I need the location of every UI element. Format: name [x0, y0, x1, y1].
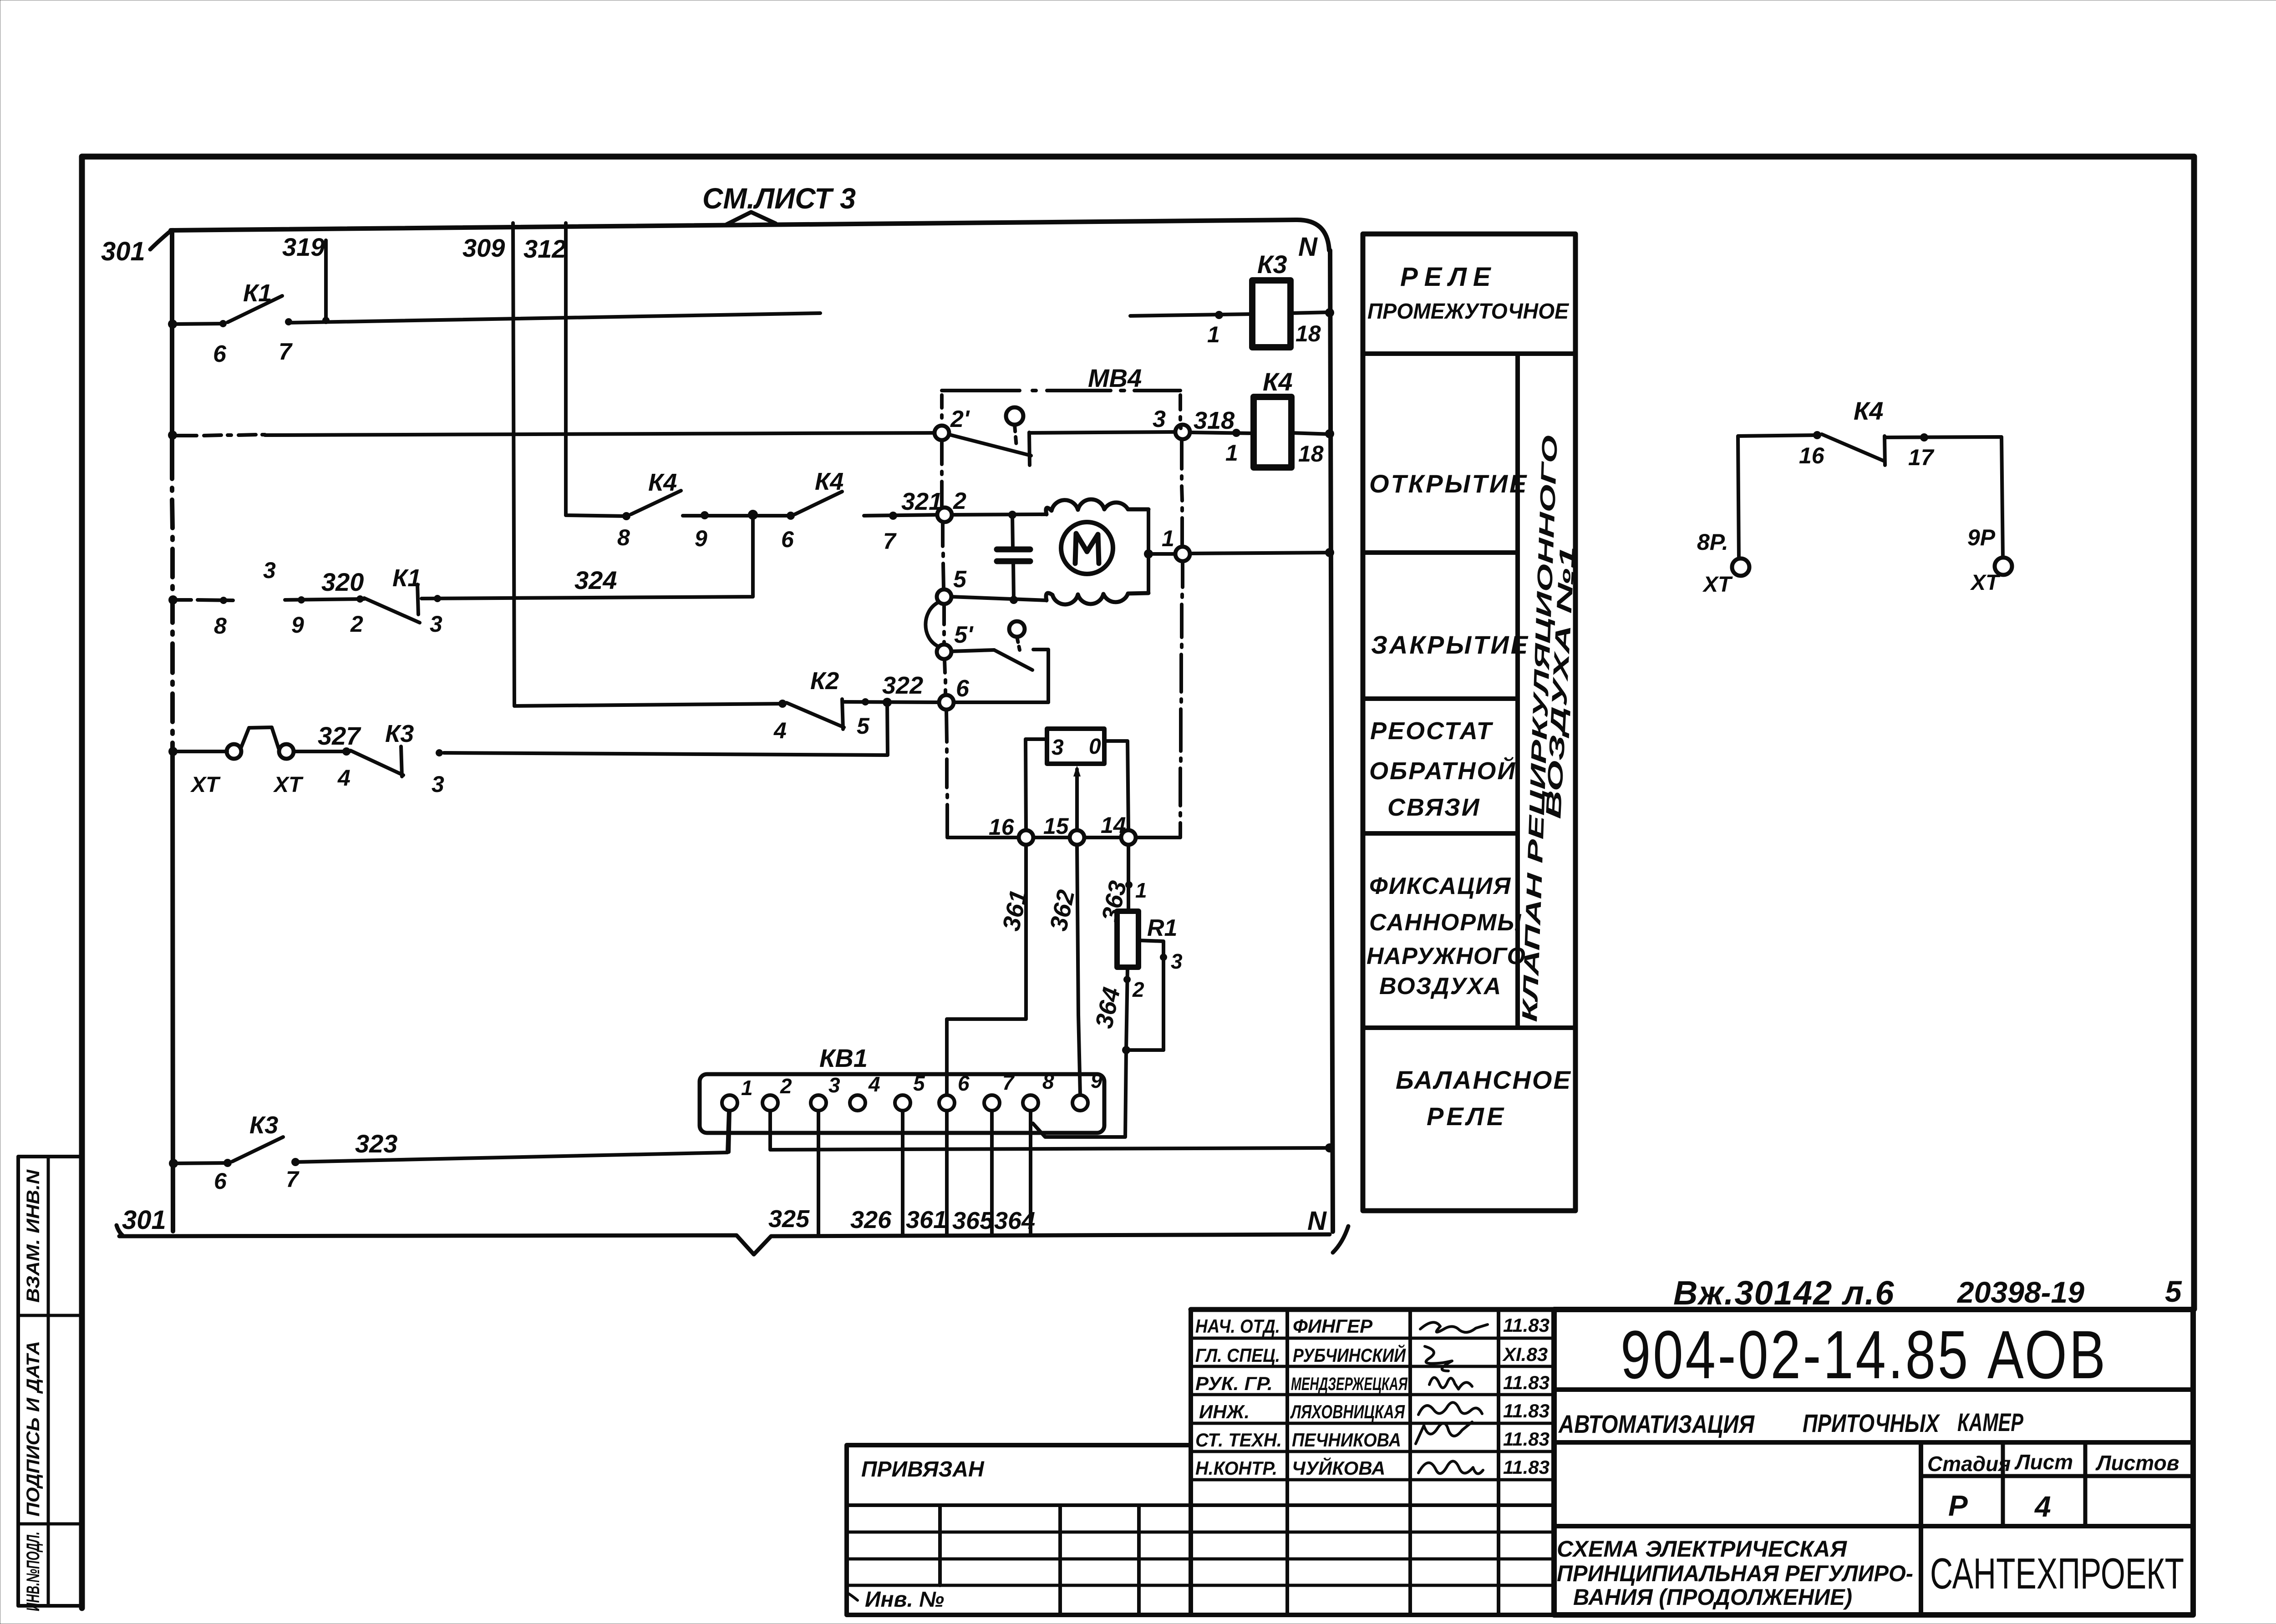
svg-text:5: 5 [913, 1071, 925, 1095]
svg-text:1: 1 [1162, 526, 1174, 551]
KB1 pin 5 [895, 1095, 910, 1111]
svg-text:СМ.ЛИСТ 3: СМ.ЛИСТ 3 [702, 182, 856, 215]
svg-text:ВОЗДУХА: ВОЗДУХА [1379, 973, 1502, 1000]
svg-text:ЗАКРЫТИЕ: ЗАКРЫТИЕ [1371, 630, 1529, 659]
svg-text:325: 325 [768, 1205, 810, 1233]
left grid col b [1058, 1505, 1062, 1615]
svg-text:320: 320 [321, 568, 364, 596]
KB1 pin 6 [939, 1095, 955, 1111]
stamp divider vertical [47, 1157, 50, 1606]
wire node5 row [951, 597, 1047, 600]
switch 5' fixed hook [1033, 650, 1048, 702]
signature 4 [1418, 1402, 1482, 1415]
MB4 box left edge dash-dot [942, 395, 947, 837]
stage col divider [1919, 1442, 1923, 1615]
continuation chevron to sheet 3 [726, 212, 776, 224]
svg-text:14: 14 [1101, 812, 1126, 838]
svg-text:Инв. №: Инв. № [865, 1588, 944, 1612]
rheostat left lead to 16 [1026, 739, 1047, 830]
svg-text:3: 3 [1171, 949, 1183, 973]
sig row line 4 [1191, 1422, 1554, 1425]
svg-text:Р: Р [1948, 1489, 1968, 1522]
terminal 6 of K1 [219, 320, 227, 327]
terminal 7 of K1 [285, 318, 292, 325]
wire switch to node 3 [1030, 432, 1175, 433]
terminal 1 of R1 [1125, 881, 1133, 888]
svg-text:301: 301 [122, 1205, 166, 1235]
svg-text:РЕЛЕ: РЕЛЕ [1427, 1102, 1506, 1131]
wire 324 [422, 516, 753, 599]
connector KB1 box [700, 1074, 1104, 1133]
wire to coil K3 [1130, 314, 1252, 316]
svg-text:XI.83: XI.83 [1502, 1344, 1548, 1365]
sig col date divider [1497, 1309, 1500, 1615]
svg-text:324: 324 [574, 566, 617, 594]
svg-text:ХТ: ХТ [190, 773, 221, 797]
svg-text:6: 6 [213, 341, 227, 367]
terminal 8 row4 [220, 597, 227, 604]
svg-text:20398-19: 20398-19 [1956, 1275, 2084, 1309]
svg-text:ОБРАТНОЙ: ОБРАТНОЙ [1369, 756, 1516, 785]
wire 364 to pin8 [1033, 1050, 1126, 1137]
sig col role divider [1285, 1309, 1289, 1615]
switch 5' actuator stem [1017, 637, 1020, 650]
MB4 box top dash-dot [942, 389, 1180, 392]
wire row4 dash [174, 600, 233, 600]
svg-text:ХТ: ХТ [273, 773, 304, 797]
contact K1 blade (row1) [228, 296, 282, 322]
svg-text:6: 6 [958, 1071, 970, 1095]
jumper hop XT-XT [241, 727, 279, 748]
node 319 on row1 [322, 317, 330, 324]
KB1 pin 4 [850, 1095, 865, 1111]
wire 322 drop [444, 702, 888, 755]
contact K4 right section left lead [1738, 435, 1817, 559]
node junction left rail row1 [168, 320, 177, 329]
titleblock right box frame [1554, 1309, 2193, 1615]
stage header row line [1921, 1474, 2193, 1478]
sig row line 1 [1191, 1337, 1554, 1340]
svg-text:К4: К4 [815, 468, 843, 495]
node junction left rail row XT [168, 747, 178, 756]
svg-text:R1: R1 [1147, 915, 1177, 941]
svg-text:11.83: 11.83 [1503, 1400, 1550, 1421]
svg-text:Н.КОНТР.: Н.КОНТР. [1195, 1457, 1277, 1479]
svg-text:3: 3 [828, 1073, 840, 1097]
terminal 1 of coil K3 [1215, 311, 1223, 319]
svg-text:4: 4 [773, 718, 787, 743]
svg-text:ИНЖ.: ИНЖ. [1199, 1401, 1250, 1422]
list col divider [2001, 1442, 2005, 1526]
contact K1 blade (row4 NC) [364, 598, 420, 623]
switch 5' actuator circle [1009, 621, 1025, 637]
terminal 9 [701, 511, 709, 519]
svg-text:Лист: Лист [2014, 1450, 2073, 1474]
capacitor plate 1 [997, 547, 1030, 553]
svg-text:САННОРМЫ: САННОРМЫ [1369, 909, 1522, 936]
titleblock line above schema [1554, 1524, 2193, 1528]
wire pin2 to N rail [770, 1111, 1330, 1150]
node 5' [937, 645, 951, 659]
motor bottom winding [1046, 593, 1148, 604]
svg-text:1: 1 [1135, 878, 1147, 902]
svg-text:9: 9 [291, 612, 304, 638]
svg-text:7: 7 [279, 339, 293, 365]
switch 5' blade [994, 650, 1032, 670]
contact K3 blade (NC row) [351, 751, 403, 775]
titleblock top line [1191, 1307, 2193, 1312]
svg-text:МВ4: МВ4 [1088, 364, 1142, 392]
stamp divider h2 [18, 1522, 82, 1526]
KB1 pin 7 [984, 1095, 1000, 1111]
svg-text:8: 8 [617, 525, 630, 550]
svg-text:5: 5 [2165, 1274, 2182, 1308]
svg-text:АВТОМАТИЗАЦИЯ: АВТОМАТИЗАЦИЯ [1558, 1410, 1755, 1438]
svg-text:Стадия: Стадия [1927, 1452, 2011, 1476]
svg-text:Вж.30142 л.6: Вж.30142 л.6 [1673, 1274, 1895, 1312]
svg-text:ВАНИЯ (ПРОДОЛЖЕНИЕ): ВАНИЯ (ПРОДОЛЖЕНИЕ) [1573, 1584, 1852, 1610]
table divider close/rheo [1363, 696, 1518, 701]
node on N rail row2 [1325, 429, 1334, 438]
svg-text:4: 4 [2034, 1490, 2051, 1523]
wire 327 [294, 750, 350, 753]
wire 309 corner to K2 [514, 704, 784, 706]
wire coil K4 to N [1291, 433, 1331, 434]
svg-text:8: 8 [1042, 1070, 1054, 1093]
sig row line 9 [847, 1558, 1554, 1561]
motor right side link [1147, 509, 1150, 593]
node 324 junction [748, 510, 758, 520]
MB4 limit switch blade (2'-3) [950, 435, 1031, 456]
svg-text:К1: К1 [243, 279, 272, 307]
KB1 pin 1 [722, 1095, 737, 1111]
svg-text:16: 16 [1799, 443, 1825, 468]
svg-text:ПРИТОЧНЫХ: ПРИТОЧНЫХ [1803, 1409, 1941, 1437]
svg-text:РЕОСТАТ: РЕОСТАТ [1370, 717, 1493, 745]
svg-text:318: 318 [1194, 407, 1235, 434]
wire rail to XT [173, 750, 227, 753]
svg-text:323: 323 [355, 1129, 397, 1158]
top rail left hook [150, 231, 170, 249]
signature 2 [1425, 1346, 1452, 1371]
node 1 [1175, 547, 1190, 561]
motor M circle [1061, 522, 1113, 574]
svg-text:1: 1 [741, 1076, 753, 1100]
signature table outline [1191, 1309, 1554, 1615]
svg-text:3: 3 [430, 611, 442, 637]
svg-text:К3: К3 [1257, 250, 1287, 279]
svg-text:ГЛ. СПЕЦ.: ГЛ. СПЕЦ. [1195, 1345, 1280, 1366]
svg-text:К3: К3 [385, 720, 414, 747]
top rail 301-N with pointer notch [171, 220, 1329, 250]
MB4 switch fixed bar [1029, 432, 1030, 465]
svg-text:N: N [1307, 1206, 1327, 1236]
svg-text:РУК. ГР.: РУК. ГР. [1195, 1373, 1273, 1394]
relay coil K3 [1252, 280, 1290, 347]
svg-text:11.83: 11.83 [1503, 1372, 1550, 1393]
resistor R1 [1117, 911, 1138, 967]
svg-text:3: 3 [1153, 406, 1166, 432]
terminal 17 [1920, 433, 1928, 442]
svg-text:2': 2' [950, 406, 970, 432]
wire K2 to node6 [844, 702, 939, 702]
connector XT circle a [227, 744, 241, 759]
MB4 switch actuator stem [1015, 425, 1016, 447]
signature 6 [1418, 1461, 1483, 1473]
wire 318 [1190, 432, 1254, 433]
node 3 [1175, 425, 1190, 439]
capacitor stem bottom [1013, 562, 1014, 600]
rheostat wiper arrowhead [1073, 766, 1081, 776]
table divider open/close [1363, 550, 1518, 555]
wire 361 drop [945, 1111, 949, 1234]
left rail 301 vertical upper [170, 230, 174, 456]
svg-text:К1: К1 [392, 564, 421, 592]
terminal 6 of K3 (323) [224, 1159, 232, 1167]
signature 5 [1416, 1422, 1472, 1444]
contact K2 blade (NC) [787, 703, 844, 727]
motor top winding [1046, 499, 1148, 514]
contact K2 fixed bar [842, 699, 843, 729]
svg-text:К2: К2 [810, 667, 839, 695]
wire 361 from node16 to pin6 [947, 845, 1026, 1095]
svg-text:2: 2 [953, 488, 966, 514]
node 322 junction [883, 698, 892, 707]
wire node1 to N [1190, 553, 1331, 553]
svg-text:К4: К4 [1263, 367, 1293, 396]
wire 323 [296, 1111, 729, 1162]
wire 309 vertical [513, 223, 514, 706]
row3 wire from 312 [566, 514, 627, 516]
svg-text:ИНВ.№ПОДЛ.: ИНВ.№ПОДЛ. [23, 1532, 43, 1611]
sig col name divider [1408, 1309, 1412, 1615]
terminal 4 of K3 [342, 747, 351, 756]
svg-text:9Р: 9Р [1967, 525, 1996, 550]
svg-text:К3: К3 [249, 1111, 278, 1139]
svg-text:361: 361 [906, 1206, 947, 1233]
svg-text:2: 2 [350, 611, 363, 637]
left grid bottom [847, 1613, 1554, 1617]
svg-text:5': 5' [954, 622, 974, 648]
terminal 3 of R1 [1160, 954, 1167, 961]
node on N rail row1 [1325, 308, 1334, 317]
table divider above balance [1363, 1025, 1575, 1030]
sig row line 7 [847, 1503, 1554, 1507]
terminal 16 [1813, 431, 1821, 439]
terminal circle 8R [1732, 558, 1749, 576]
node cap top [1008, 511, 1016, 519]
jumper 5 to 5' [925, 602, 939, 646]
svg-text:СХЕМА ЭЛЕКТРИЧЕСКАЯ: СХЕМА ЭЛЕКТРИЧЕСКАЯ [1557, 1536, 1848, 1562]
table divider rheo/fix [1363, 831, 1518, 836]
table inner vertical [1515, 354, 1520, 1028]
svg-text:7: 7 [883, 528, 897, 554]
titleblock line under 904 [1554, 1387, 2193, 1392]
wire pin1 to 323 [729, 1111, 730, 1152]
wire 9 to 6 [683, 514, 792, 518]
node junction left rail row 323 [169, 1159, 178, 1168]
node tap junction [1122, 1046, 1130, 1054]
signature 1 [1420, 1322, 1488, 1332]
left grid col c [1137, 1505, 1141, 1615]
svg-text:2: 2 [1132, 978, 1144, 1001]
contact K4 blade a (row3) [631, 491, 681, 514]
svg-text:СВЯЗИ: СВЯЗИ [1387, 794, 1481, 821]
node cap bottom [1010, 596, 1018, 604]
svg-text:2: 2 [780, 1074, 792, 1098]
terminal 8 [622, 512, 630, 520]
svg-text:365: 365 [952, 1207, 994, 1234]
svg-text:7: 7 [1002, 1071, 1015, 1094]
node motor out [1144, 549, 1153, 558]
wire row2 rail dash-dot start [173, 435, 265, 436]
svg-text:ФИНГЕР: ФИНГЕР [1293, 1315, 1373, 1337]
svg-text:18: 18 [1298, 441, 1324, 467]
svg-text:К4: К4 [648, 469, 677, 496]
R1 tap bottom link [1126, 1048, 1163, 1052]
svg-text:ЧУЙКОВА: ЧУЙКОВА [1292, 1457, 1385, 1479]
wire row2 to node 2' [265, 433, 935, 435]
svg-text:5: 5 [857, 713, 870, 739]
sig row line 3 [1191, 1393, 1554, 1396]
terminal 5 of K2 [862, 698, 869, 705]
left rail 301 vertical lower [173, 751, 173, 1231]
rheostat wiper arrow from node15 [1075, 769, 1079, 830]
svg-text:ОТКРЫТИЕ: ОТКРЫТИЕ [1369, 469, 1528, 498]
node 2' [935, 426, 949, 440]
svg-text:18: 18 [1295, 321, 1321, 346]
svg-text:319: 319 [282, 233, 325, 261]
svg-text:4: 4 [337, 765, 351, 791]
svg-text:ЛЯХОВНИЦКАЯ: ЛЯХОВНИЦКАЯ [1290, 1401, 1405, 1422]
svg-text:6: 6 [781, 527, 794, 552]
svg-text:9: 9 [695, 526, 707, 551]
svg-text:ФИКСАЦИЯ: ФИКСАЦИЯ [1369, 873, 1511, 899]
svg-text:6: 6 [956, 675, 970, 702]
node junction left rail row2 [168, 431, 177, 440]
node junction left rail row4 [168, 595, 178, 604]
wire 365 drop [990, 1111, 994, 1234]
svg-text:НАЧ. ОТД.: НАЧ. ОТД. [1195, 1315, 1280, 1337]
svg-text:904-02-14.85 АОВ: 904-02-14.85 АОВ [1621, 1316, 2108, 1393]
MB4 box bottom edge [947, 836, 1180, 839]
KB1 pin 9 [1072, 1095, 1088, 1111]
MB4 switch actuator circle [1006, 407, 1023, 425]
svg-text:9: 9 [1091, 1069, 1102, 1092]
wire R1 bottom [1126, 967, 1128, 1050]
node 6 [939, 695, 954, 710]
terminal 2 row4 [356, 595, 364, 603]
KB1 pin 2 [762, 1095, 778, 1111]
bottom rail right hook [1333, 1226, 1348, 1253]
svg-text:327: 327 [318, 721, 361, 750]
contact K1 fixed bar [417, 584, 418, 614]
svg-text:5: 5 [953, 566, 967, 593]
svg-text:11.83: 11.83 [1503, 1314, 1550, 1336]
node on N rail 325 row [1325, 1143, 1334, 1152]
svg-text:КАМЕР: КАМЕР [1957, 1408, 2023, 1436]
svg-text:ХТ: ХТ [1702, 573, 1733, 597]
wire node2 to motor [952, 514, 1047, 515]
svg-text:4: 4 [868, 1072, 880, 1096]
svg-text:11.83: 11.83 [1503, 1457, 1550, 1478]
R1 tap lead [1138, 940, 1163, 1050]
capacitor plate 2 [997, 558, 1030, 564]
svg-text:ХТ: ХТ [1970, 571, 2001, 595]
wire 326 drop [901, 1111, 904, 1234]
wire 362 from node15 to pin9 [1077, 845, 1080, 1095]
svg-text:N: N [1298, 232, 1318, 262]
titleblock line under avtomatizaciya [1554, 1440, 2193, 1445]
MB4 box right edge dash-dot [1180, 395, 1183, 837]
svg-text:ПЕЧНИКОВА: ПЕЧНИКОВА [1292, 1429, 1401, 1451]
KB1 pin 3 [811, 1095, 826, 1111]
sig row line 5 [1191, 1450, 1554, 1453]
svg-text:7: 7 [286, 1167, 300, 1192]
terminal 3 row4 [434, 595, 441, 602]
wire 312 vertical [564, 223, 568, 515]
connector XT circle b [279, 744, 294, 759]
contact K4 blade b (row3) [795, 492, 842, 514]
svg-text:РЕЛЕ: РЕЛЕ [1400, 262, 1497, 292]
sig row line 10 [847, 1584, 1554, 1587]
terminal 1 of coil K4 [1232, 429, 1240, 437]
stamp divider h1 [18, 1314, 82, 1317]
svg-text:ВЗАМ. ИНВ.N: ВЗАМ. ИНВ.N [23, 1169, 43, 1303]
svg-text:1: 1 [1207, 322, 1220, 347]
svg-text:ПРИНЦИПИАЛЬНАЯ РЕГУЛИРО-: ПРИНЦИПИАЛЬНАЯ РЕГУЛИРО- [1557, 1561, 1913, 1586]
svg-text:15: 15 [1043, 813, 1069, 839]
bottom rail left hook [117, 1225, 123, 1236]
relay coil K4 [1254, 397, 1291, 467]
wire 364 drop [1029, 1111, 1032, 1234]
wire 363 node14 to R1 [1127, 845, 1130, 911]
svg-text:362: 362 [1045, 888, 1080, 934]
terminal 7 [889, 512, 897, 520]
node on N rail row motor [1325, 548, 1334, 557]
svg-text:КВ1: КВ1 [819, 1044, 868, 1072]
terminal 9 row4 [298, 596, 305, 604]
left margin stamp column [18, 1157, 82, 1606]
svg-text:ПРОМЕЖУТОЧНОЕ: ПРОМЕЖУТОЧНОЕ [1367, 299, 1570, 324]
sig row line 2 [1191, 1365, 1554, 1368]
svg-text:РУБЧИНСКИЙ: РУБЧИНСКИЙ [1293, 1344, 1406, 1366]
svg-text:1: 1 [1225, 440, 1238, 466]
svg-text:3: 3 [432, 771, 444, 797]
bottom rail 301-N with break mark [119, 1234, 1330, 1254]
node 5 [937, 589, 951, 604]
svg-text:326: 326 [850, 1206, 892, 1233]
left grid col a [938, 1505, 942, 1585]
wire 5' to switch [951, 650, 994, 651]
sig row line 8 [847, 1531, 1554, 1534]
svg-text:312: 312 [523, 234, 566, 263]
terminal 6 [787, 512, 795, 520]
KB1 pin 8 [1023, 1095, 1038, 1111]
capacitor C stem top [1012, 515, 1013, 548]
signature 3 [1429, 1377, 1472, 1389]
N rail vertical [1330, 250, 1333, 1232]
node 2 [937, 507, 952, 522]
svg-text:0: 0 [1089, 735, 1101, 759]
left rail 301 dash-dot section [172, 456, 173, 751]
svg-text:ПОДПИСЬ И ДАТА: ПОДПИСЬ И ДАТА [23, 1341, 43, 1517]
contact K4 fixed bar (right) [1885, 436, 1885, 465]
wire 325 drop [817, 1111, 820, 1234]
sig row line 6 [1191, 1478, 1554, 1482]
wire row1 left [173, 324, 224, 324]
contact K3 blade (323 row) [232, 1137, 283, 1162]
